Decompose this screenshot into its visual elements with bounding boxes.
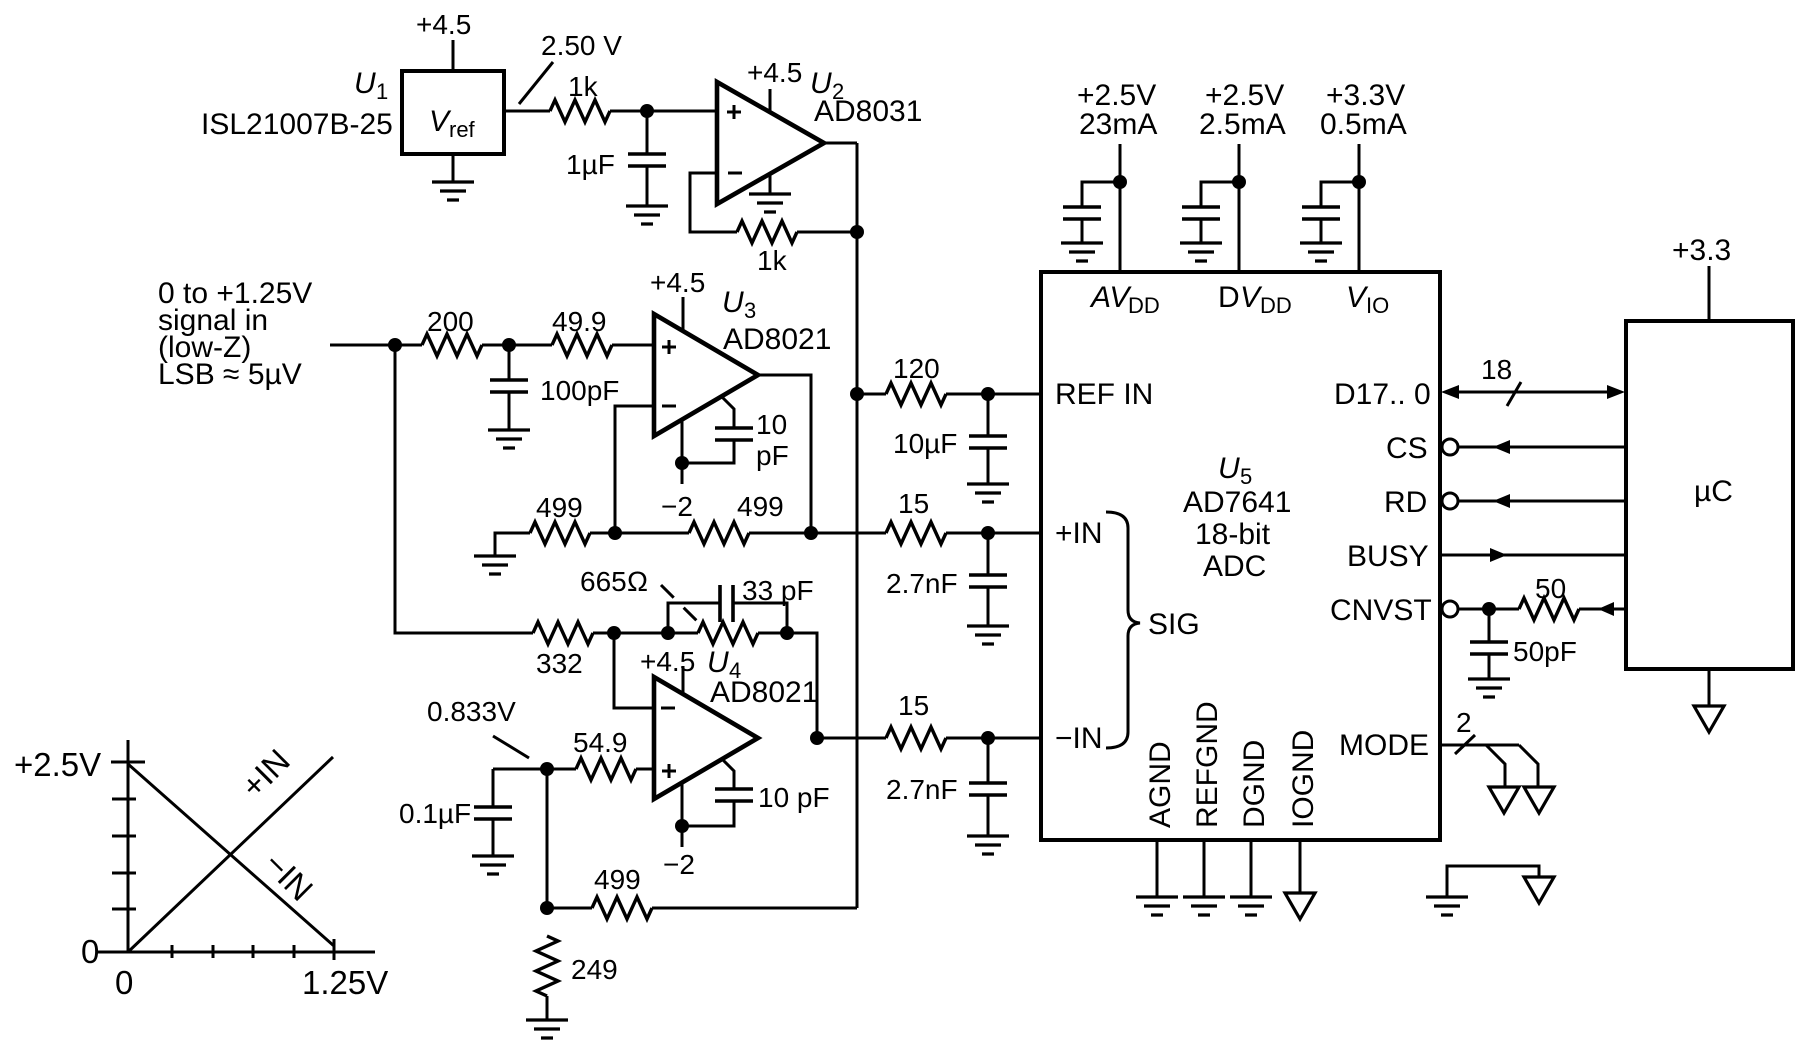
- capacitor 10 pF (U3 comp): [682, 397, 789, 471]
- ADC U5 AD7641 box: [1041, 272, 1440, 840]
- svg-text:+4.5: +4.5: [416, 9, 471, 40]
- +3.3V 0.5mA supply (Vio): [1320, 79, 1407, 272]
- svg-text:2: 2: [1456, 707, 1472, 738]
- wire ground tie: [1447, 866, 1539, 897]
- svg-text:CS: CS: [1386, 432, 1428, 465]
- wire MODE: [1440, 744, 1519, 747]
- wire 1k to U2 +in: [610, 110, 717, 113]
- pin Vio: [1346, 281, 1389, 318]
- svg-text:SIG: SIG: [1148, 608, 1200, 641]
- svg-text:499: 499: [737, 491, 784, 522]
- ground (Vio bypass): [1300, 243, 1342, 261]
- graph x-axis: [97, 951, 375, 954]
- node AVdd bypass junction: [1113, 175, 1127, 189]
- svg-text:18: 18: [1481, 354, 1512, 385]
- ground (tie open triangle): [1524, 877, 1554, 903]
- svg-text:AV: AV: [1089, 281, 1132, 314]
- svg-text:AD8031: AD8031: [814, 95, 922, 128]
- +4.5 supply (U3): [650, 267, 705, 331]
- wire 49.9 to U3 +in: [612, 344, 654, 347]
- svg-text:U: U: [1218, 452, 1240, 485]
- wire 120 to REF IN pin: [946, 393, 1041, 396]
- resistor 15 (+IN): [886, 488, 946, 544]
- svg-text:RD: RD: [1384, 486, 1427, 519]
- capacitor DVdd bypass: [1182, 182, 1239, 243]
- svg-text:10 pF: 10 pF: [758, 782, 830, 813]
- +4.5 supply (U4): [640, 646, 695, 695]
- capacitor 100pF: [490, 345, 619, 430]
- svg-text:0.833V: 0.833V: [427, 696, 516, 727]
- node 332/U4 -in junction: [607, 626, 621, 640]
- wire feedback to output node: [797, 231, 857, 234]
- svg-text:REF IN: REF IN: [1055, 378, 1153, 411]
- ground (MODE branch 2 open triangle): [1524, 787, 1554, 813]
- svg-text:−2: −2: [661, 491, 693, 522]
- resistor 15 (-IN): [886, 690, 946, 749]
- bus width slash 2: [1455, 707, 1475, 754]
- wire 2.5V reference bus: [856, 143, 859, 908]
- ground (uC open triangle): [1694, 669, 1724, 732]
- node U3 output junction: [804, 526, 818, 540]
- wire U4 -in: [614, 633, 654, 708]
- svg-text:2.50 V: 2.50 V: [541, 30, 622, 61]
- node 10uF tap: [981, 387, 995, 401]
- svg-text:CNVST: CNVST: [1330, 594, 1432, 627]
- arrowhead CNVST: [1598, 602, 1614, 616]
- label 2.50 V with pointer: [519, 30, 622, 104]
- svg-text:54.9: 54.9: [573, 727, 628, 758]
- node REF IN tap on bus: [850, 387, 864, 401]
- svg-text:D: D: [1218, 281, 1240, 314]
- svg-text:+4.5: +4.5: [747, 57, 802, 88]
- resistor 1k (reference filter): [550, 71, 610, 122]
- arrowhead BUSY: [1490, 548, 1507, 562]
- svg-text:332: 332: [536, 648, 583, 679]
- label 0.833V with pointer: [427, 696, 529, 758]
- node DVdd bypass junction: [1232, 175, 1246, 189]
- resistor 120: [886, 353, 946, 405]
- svg-text:ref: ref: [449, 117, 476, 142]
- ground (MODE branch 1 open triangle): [1489, 787, 1519, 813]
- capacitor 10uF: [893, 394, 1007, 484]
- graph y ticks: [111, 762, 145, 909]
- ground (AGND): [1136, 897, 1178, 915]
- bubble RD: [1442, 493, 1458, 509]
- -2 supply (U4): [663, 783, 695, 880]
- wire U2 feedback loop: [690, 173, 737, 232]
- svg-text:pF: pF: [756, 440, 789, 471]
- ground (tie 3-line): [1426, 897, 1468, 915]
- ground (2.7nF +IN): [967, 626, 1009, 644]
- node 33pF left junction: [661, 626, 675, 640]
- resistor 499 (divider): [592, 864, 652, 919]
- wire CS: [1458, 446, 1626, 449]
- pin IOGND: [1287, 730, 1320, 893]
- op-amp U2 AD8031: [717, 67, 922, 204]
- svg-text:10: 10: [756, 409, 787, 440]
- arrowhead RD: [1493, 494, 1510, 508]
- svg-text:1k: 1k: [757, 245, 788, 276]
- wire U2 output: [824, 142, 857, 145]
- graph: input signal plot: [14, 740, 388, 1001]
- svg-text:0.5mA: 0.5mA: [1320, 108, 1407, 141]
- node U4 -2 pin junction: [675, 819, 689, 833]
- svg-text:ADC: ADC: [1203, 550, 1266, 583]
- node pot right junction: [780, 626, 794, 640]
- bubble CNVST: [1442, 601, 1458, 617]
- node 2.7nF tap (-IN): [981, 731, 995, 745]
- svg-text:23mA: 23mA: [1079, 108, 1157, 141]
- -2 supply (U3): [661, 420, 693, 522]
- capacitor 33 pF (U4 feedback): [668, 575, 814, 633]
- +2.5V 2.5mA supply (DVdd): [1199, 79, 1286, 272]
- wire signal input: [330, 344, 422, 347]
- wire 499 to reference bus: [652, 907, 857, 910]
- node 50pF tap: [1482, 602, 1496, 616]
- resistor 499 (U3 gain): [530, 492, 590, 544]
- capacitor 2.7nF (+IN): [886, 533, 1007, 626]
- resistor 200: [422, 306, 482, 356]
- svg-text:D17.. 0: D17.. 0: [1334, 378, 1431, 411]
- svg-text:U: U: [722, 286, 744, 319]
- node divider junction: [540, 901, 554, 915]
- svg-text:1: 1: [376, 79, 388, 104]
- SIG brace: [1106, 512, 1140, 748]
- ground (0.1uF): [472, 856, 514, 874]
- pin DGND: [1238, 740, 1271, 897]
- input description text: [158, 277, 312, 391]
- ground (DGND): [1230, 897, 1272, 915]
- node U4 output junction: [810, 731, 824, 745]
- +3.3 supply (uC): [1672, 234, 1731, 321]
- resistor 499 (U3 feedback): [689, 491, 784, 544]
- svg-text:−IN: −IN: [1055, 722, 1103, 755]
- svg-text:+4.5: +4.5: [640, 646, 695, 677]
- pin DVdd: [1218, 281, 1292, 318]
- wire divider vertical: [546, 769, 549, 908]
- +2.5V 23mA supply (AVdd): [1077, 79, 1157, 272]
- wire U3 -in: [615, 406, 654, 533]
- svg-text:50: 50: [1535, 573, 1566, 604]
- svg-text:499: 499: [536, 492, 583, 523]
- node 2.7nF tap (+IN): [981, 526, 995, 540]
- wire feedback to U4 output: [787, 633, 817, 738]
- wire pot to right node: [758, 632, 787, 635]
- node 0.833V: [540, 762, 554, 776]
- resistor 54.9: [573, 727, 636, 780]
- wire U4 output row to 15: [817, 737, 886, 740]
- capacitor Vio bypass: [1302, 182, 1359, 243]
- svg-text:+4.5: +4.5: [650, 267, 705, 298]
- arrowhead CS: [1493, 440, 1510, 454]
- resistor 1k (U2 feedback): [737, 221, 797, 276]
- ground (DVdd bypass): [1180, 243, 1222, 261]
- ground (IOGND open triangle): [1285, 893, 1315, 919]
- wire 15 to -IN pin: [946, 737, 1041, 740]
- svg-text:LSB ≈ 5µV: LSB ≈ 5µV: [158, 358, 302, 391]
- svg-text:2.5mA: 2.5mA: [1199, 108, 1286, 141]
- svg-text:AGND: AGND: [1144, 741, 1177, 828]
- resistor 249: [536, 936, 618, 996]
- svg-text:U: U: [354, 67, 376, 100]
- svg-text:120: 120: [893, 353, 940, 384]
- svg-text:33 pF: 33 pF: [742, 575, 814, 606]
- wire data bus D17..0: [1452, 391, 1614, 394]
- ground (1uF): [626, 206, 668, 224]
- graph +IN trace: [128, 757, 333, 952]
- wire 54.9 to U4 +in: [636, 768, 654, 771]
- svg-text:15: 15: [898, 690, 929, 721]
- resistor 332: [533, 622, 593, 679]
- pin AGND: [1144, 741, 1177, 897]
- svg-text:1.25V: 1.25V: [302, 964, 388, 1001]
- wire 332 to pot: [593, 632, 698, 635]
- svg-text:1k: 1k: [568, 71, 599, 102]
- ground (U1): [432, 154, 474, 200]
- node Vio bypass junction: [1352, 175, 1366, 189]
- op-amp U4 AD8021: [654, 646, 818, 799]
- svg-text:665Ω: 665Ω: [580, 566, 648, 597]
- wire 499 to 499: [590, 532, 689, 535]
- ground (10uF): [967, 484, 1009, 502]
- ground (249): [526, 1020, 568, 1038]
- capacitor 0.1uF: [399, 769, 512, 856]
- pin REFGND: [1191, 701, 1224, 897]
- node U3 -in junction: [608, 526, 622, 540]
- wire BUSY: [1440, 554, 1626, 557]
- svg-text:IOGND: IOGND: [1287, 730, 1320, 828]
- node 1uF tap: [640, 104, 654, 118]
- wire RD: [1458, 500, 1626, 503]
- svg-text:15: 15: [898, 488, 929, 519]
- ground (REFGND): [1183, 897, 1225, 915]
- svg-text:200: 200: [427, 306, 474, 337]
- arrowhead data bus left: [1441, 385, 1459, 399]
- svg-text:MODE: MODE: [1339, 729, 1429, 762]
- node 100pF tap: [502, 338, 516, 352]
- resistor 49.9: [552, 306, 612, 356]
- svg-text:−2: −2: [663, 849, 695, 880]
- svg-text:+2.5V: +2.5V: [14, 746, 101, 783]
- wire 249 to ground: [546, 996, 549, 1020]
- wire MODE branch 1: [1486, 745, 1505, 787]
- node signal input junction: [388, 338, 402, 352]
- node U2 output/feedback junction: [850, 225, 864, 239]
- capacitor 1uF: [566, 111, 666, 206]
- svg-text:U: U: [707, 646, 729, 679]
- voltage reference U1 ISL21007B-25: [201, 67, 504, 154]
- svg-text:2.7nF: 2.7nF: [886, 568, 958, 599]
- svg-text:BUSY: BUSY: [1347, 540, 1429, 573]
- svg-text:µC: µC: [1694, 475, 1733, 508]
- svg-text:18-bit: 18-bit: [1195, 518, 1271, 551]
- svg-text:1µF: 1µF: [566, 149, 615, 180]
- svg-text:49.9: 49.9: [552, 306, 607, 337]
- bus width slash 18: [1481, 354, 1521, 406]
- svg-text:0: 0: [81, 933, 99, 970]
- graph x ticks: [172, 939, 334, 960]
- ground (100pF): [488, 430, 530, 448]
- graph y-axis: [127, 740, 130, 952]
- svg-text:DD: DD: [1260, 293, 1292, 318]
- svg-text:249: 249: [571, 954, 618, 985]
- svg-text:100pF: 100pF: [540, 375, 619, 406]
- svg-text:REFGND: REFGND: [1191, 701, 1224, 828]
- wire U3 output row to 15: [749, 532, 886, 535]
- svg-text:AD7641: AD7641: [1183, 486, 1291, 519]
- +4.5 supply (U2): [747, 57, 802, 113]
- svg-text:3: 3: [744, 298, 756, 323]
- wire bus to 120: [857, 393, 886, 396]
- svg-text:DD: DD: [1128, 293, 1160, 318]
- svg-text:10µF: 10µF: [893, 428, 957, 459]
- arrowhead data bus right: [1607, 385, 1625, 399]
- bubble CS: [1442, 439, 1458, 455]
- graph -IN trace: [128, 764, 334, 946]
- svg-text:2.7nF: 2.7nF: [886, 774, 958, 805]
- resistor 665 (trim): [698, 622, 758, 644]
- svg-text:0.1µF: 0.1µF: [399, 798, 471, 829]
- microcontroller box: [1626, 321, 1793, 669]
- svg-text:AD8021: AD8021: [723, 323, 831, 356]
- svg-text:AD8021: AD8021: [710, 676, 818, 709]
- ground (499 input): [474, 533, 530, 574]
- wire U3 output: [758, 375, 811, 533]
- capacitor 10 pF (U4 comp): [682, 759, 830, 826]
- wire signal branch down to 332 row: [395, 345, 533, 633]
- wire 15 to +IN pin: [946, 532, 1041, 535]
- svg-text:DGND: DGND: [1238, 740, 1271, 828]
- resistor 50: [1519, 573, 1579, 620]
- ground (50pF): [1468, 679, 1510, 697]
- wire U1 output: [504, 110, 550, 113]
- ground (U2): [749, 174, 791, 212]
- wire divider node to 54.9: [493, 768, 576, 771]
- wire MODE branch 2: [1519, 745, 1538, 787]
- svg-text:50pF: 50pF: [1513, 636, 1577, 667]
- capacitor AVdd bypass: [1063, 182, 1120, 243]
- wire divider to 499: [547, 907, 592, 910]
- wire 50 to uC: [1579, 608, 1626, 611]
- svg-text:0: 0: [115, 964, 133, 1001]
- +4.5 supply (U1): [416, 9, 471, 71]
- ground (2.7nF -IN): [967, 836, 1009, 854]
- wire CNVST to 50: [1458, 608, 1519, 611]
- label 665 ohm with dashed pointer: [580, 566, 698, 622]
- svg-text:IO: IO: [1366, 293, 1389, 318]
- op-amp U3 AD8021: [654, 286, 831, 436]
- capacitor 50pF: [1470, 609, 1577, 679]
- svg-text:+3.3: +3.3: [1672, 234, 1731, 267]
- wire 200 to 49.9: [482, 344, 552, 347]
- svg-text:+IN: +IN: [1055, 517, 1103, 550]
- pin AVdd: [1089, 281, 1160, 318]
- capacitor 2.7nF (-IN): [886, 738, 1007, 836]
- svg-text:499: 499: [594, 864, 641, 895]
- node U3 -2 pin junction: [675, 456, 689, 470]
- ground (AVdd bypass): [1061, 243, 1103, 261]
- svg-text:ISL21007B-25: ISL21007B-25: [201, 108, 393, 141]
